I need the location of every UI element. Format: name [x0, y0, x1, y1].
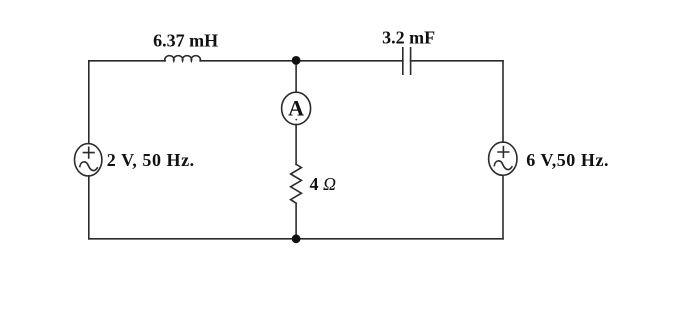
wire top-left segment [89, 60, 165, 62]
svg-text:6 V,50 Hz.: 6 V,50 Hz. [526, 150, 609, 170]
junction node top [292, 56, 301, 65]
wire top-middle segment [200, 60, 403, 62]
source V2 plus sign [498, 147, 509, 158]
source V1 plus sign [83, 147, 94, 158]
wire middle lower [295, 203, 297, 239]
wire right lower [502, 175, 504, 239]
wire left upper [88, 61, 90, 144]
capacitor C1 3.2 mF plates [403, 48, 411, 74]
svg-text:6.37 mH: 6.37 mH [153, 31, 218, 51]
source V1 sine [80, 162, 98, 171]
source V1 circle [75, 144, 102, 176]
wire middle between ammeter and resistor [295, 125, 297, 165]
junction node bottom [292, 234, 301, 243]
ammeter A1 circle [282, 92, 311, 124]
resistor R1 4 ohm zigzag [291, 164, 302, 203]
source V2 sine [494, 161, 512, 170]
svg-text:3.2 mF: 3.2 mF [382, 28, 435, 48]
svg-text:A: A [288, 96, 304, 121]
wire middle upper [295, 60, 297, 92]
source V2 circle [489, 142, 517, 175]
inductor L1 6.37 mH [165, 56, 201, 61]
ammeter pointer dot [295, 119, 297, 121]
wire right upper [502, 61, 504, 142]
wire top-right segment [411, 60, 503, 62]
svg-text:2 V, 50 Hz.: 2 V, 50 Hz. [107, 150, 195, 170]
wire left lower [88, 176, 90, 239]
wire bottom [89, 238, 503, 240]
svg-text:4 Ω: 4 Ω [310, 174, 337, 194]
